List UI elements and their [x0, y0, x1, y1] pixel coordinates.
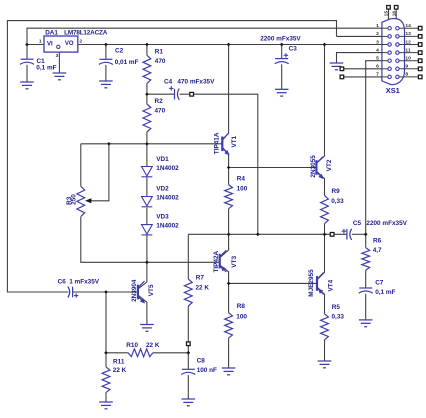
XS1 left wire into row 6: [382, 68, 388, 70]
wire node to C4: [147, 93, 175, 95]
ground R5: [318, 361, 332, 368]
wire VT2 emitter to R9: [317, 172, 325, 196]
wire VT5 collector riser: [139, 262, 147, 288]
capacitor C1: [20, 59, 34, 64]
resistor R9: [321, 196, 329, 224]
transistor VT3 TIP42A: [220, 250, 227, 272]
XS1 right pin 10 terminal: [418, 59, 422, 63]
wire VT3 emitter down: [220, 265, 228, 283]
wire R2 link: [146, 94, 148, 104]
junction R10/R11 node: [104, 351, 108, 355]
svg-text:VT2: VT2: [326, 159, 333, 171]
junction rail VT1 collector: [227, 43, 231, 47]
svg-text:MJE2955: MJE2955: [308, 269, 315, 297]
wire C1 leg: [26, 45, 28, 60]
junction base node R2/VD1: [145, 142, 149, 146]
transistor VT2 2N3055: [316, 157, 323, 179]
XS1 pin 16 wire: [395, 9, 397, 18]
svg-text:VD2: VD2: [156, 185, 169, 192]
wire VD1-VD2: [146, 178, 148, 196]
XS1 right pin 9 wire: [399, 68, 419, 70]
junction R7/R10/C8 node: [187, 351, 191, 355]
wire pin 2 stub: [337, 35, 382, 37]
wire VT1 emitter riser: [223, 148, 229, 168]
junction output R9/VT4: [323, 233, 327, 237]
wire R9 bottom: [324, 224, 326, 235]
svg-text:2N3055: 2N3055: [310, 155, 317, 178]
XS1 right contact row 3: [396, 43, 399, 46]
XS1 right contact row 5: [396, 59, 399, 62]
XS1 left wire into row 7: [382, 76, 388, 78]
wire R7 bottom to square: [187, 306, 189, 342]
transistor VT4 MJE2955: [317, 273, 324, 295]
wire VT3/VT4 base line: [229, 282, 317, 284]
wire C2 to ground: [105, 65, 107, 81]
svg-text:TIP42A: TIP42A: [213, 250, 220, 272]
connector XS1 body: [382, 18, 405, 84]
svg-text:8: 8: [405, 72, 408, 78]
wire VI node to DA1: [27, 44, 44, 46]
XS1 left wire into row 4: [382, 52, 388, 54]
svg-text:3: 3: [376, 39, 379, 45]
wire C6 to VT5 base: [73, 291, 138, 293]
wire square to VT1 collector riser drop: [193, 94, 258, 234]
wire VT1/VT2 base line: [229, 167, 316, 169]
wire R2 bottom: [146, 132, 148, 144]
resistor R11: [102, 367, 110, 393]
svg-text:12: 12: [405, 39, 411, 45]
XS1 left contact row 6: [388, 67, 391, 70]
wire DA1 gnd pin: [58, 52, 60, 73]
ground C2: [99, 81, 113, 88]
wire C7 to ground: [365, 294, 367, 320]
svg-text:C7: C7: [375, 279, 384, 286]
junction rail R1: [145, 43, 149, 47]
diode VD3: [142, 225, 153, 235]
svg-text:R10: R10: [126, 342, 138, 349]
junction VT3 emitter node: [227, 282, 231, 286]
wire R10 right link: [153, 352, 188, 354]
wire R4 bottom: [228, 209, 230, 235]
XS1 pin 6 terminal: [340, 67, 344, 71]
transistor VT1 TIP41A: [222, 133, 229, 155]
svg-text:2: 2: [79, 39, 82, 45]
junction VT5 collector top: [146, 261, 148, 263]
wiper arrow of R3: [85, 198, 91, 203]
diode VD1: [142, 167, 153, 177]
XS1 right pin 13 terminal: [418, 35, 422, 39]
wire C8 top leg: [187, 353, 189, 370]
svg-text:R6: R6: [373, 237, 382, 244]
potentiometer R3: [77, 186, 85, 216]
svg-text:0,33: 0,33: [331, 198, 344, 205]
wire R7 riser from output line: [187, 234, 189, 279]
svg-text:0,1 mF: 0,1 mF: [36, 64, 56, 71]
svg-text:R9: R9: [332, 188, 341, 195]
XS1 left wire into row 1: [382, 27, 388, 29]
resistor R10: [128, 349, 153, 357]
DA1 ground pin circle: [57, 45, 60, 48]
ground C3: [275, 89, 289, 96]
resistor R1: [143, 55, 151, 83]
svg-text:22 K: 22 K: [113, 367, 127, 374]
svg-text:2N3904: 2N3904: [131, 279, 138, 302]
svg-text:VI: VI: [47, 42, 53, 48]
wire VT4 emitter to R5: [318, 288, 325, 314]
terminal square above R7/R10 node: [187, 342, 191, 346]
svg-text:1: 1: [376, 23, 379, 29]
svg-text:11: 11: [405, 47, 410, 53]
svg-text:470: 470: [155, 58, 166, 65]
wire R10 left link: [106, 352, 128, 354]
wire C2 leg: [105, 45, 107, 60]
terminal square on C4 wire: [190, 92, 194, 96]
XS1 right contact row 6: [396, 67, 399, 70]
XS1 pin 16 terminal: [394, 6, 398, 10]
svg-text:R5: R5: [332, 304, 341, 311]
transistor VT5 2N3904: [138, 281, 145, 303]
wire R4 top: [228, 168, 230, 185]
XS1 right pin 8 wire: [399, 76, 419, 78]
XS1 right pin 8 terminal: [418, 75, 422, 79]
junction R1/R2/C4 node: [145, 92, 149, 96]
svg-text:R8: R8: [237, 303, 246, 310]
XS1 right pin 14 terminal: [418, 26, 422, 30]
junction VT1 emitter node: [227, 166, 231, 170]
svg-text:1: 1: [39, 39, 42, 45]
XS1 pin 15 wire: [388, 9, 390, 20]
svg-text:R1: R1: [155, 48, 164, 55]
wire VT1 collector: [223, 45, 229, 140]
XS1 pin 7 terminal: [340, 75, 344, 79]
junction output R4/VT3: [227, 233, 231, 237]
svg-text:250: 250: [71, 194, 78, 205]
capacitor C7: [359, 288, 373, 293]
svg-text:100: 100: [237, 186, 248, 193]
XS1 left wire into row 2: [382, 35, 388, 37]
XS1 right pin 13 wire: [399, 35, 419, 37]
XS1 pin 15 terminal: [387, 6, 391, 10]
svg-text:4,7: 4,7: [373, 247, 382, 254]
XS1 pin 6 stub: [343, 68, 382, 70]
ground R11: [99, 402, 113, 409]
junction rail VT2 collector: [323, 43, 327, 47]
svg-text:1N4002: 1N4002: [156, 165, 179, 172]
wire output riser to pin 5: [366, 61, 382, 235]
junction base node wiper: [107, 142, 111, 146]
svg-text:100 nF: 100 nF: [197, 367, 217, 374]
XS1 right contact row 4: [396, 51, 399, 54]
XS1 right pin 11 wire: [399, 52, 419, 54]
junction VT3 base line diode/VT5 collector: [145, 260, 149, 264]
wire C1 to ground: [26, 65, 28, 82]
wire C8 to ground: [187, 375, 189, 399]
XS1 pin 7 stub: [343, 76, 382, 78]
junction C1/VI node: [25, 43, 29, 47]
junction output C4 drop: [256, 233, 260, 237]
svg-text:C4: C4: [164, 79, 173, 86]
svg-text:5: 5: [376, 56, 379, 62]
capacitor C3: [275, 59, 289, 64]
wire input line C1/VI node to pin 1: [27, 28, 382, 44]
wire VT4 collector riser: [318, 234, 325, 279]
terminal square on output line: [330, 233, 334, 237]
ground DA1: [53, 73, 67, 80]
resistor R2: [143, 104, 151, 132]
junction rail C2: [104, 43, 108, 47]
wire R5 to ground: [324, 340, 326, 361]
junction rail C3: [280, 43, 284, 47]
svg-text:VT3: VT3: [231, 256, 238, 268]
svg-text:3: 3: [56, 53, 59, 59]
svg-text:4: 4: [376, 47, 379, 53]
wire main +rail DA1 VO to pin 3: [78, 44, 382, 46]
svg-text:15: 15: [384, 11, 390, 17]
ground C7: [359, 320, 373, 327]
svg-text:22 K: 22 K: [196, 285, 210, 292]
wire pin4 to ground: [337, 53, 382, 63]
wire VT5 emitter down: [139, 296, 147, 325]
capacitor C4: [175, 89, 180, 100]
svg-text:LM78L12ACZA: LM78L12ACZA: [64, 30, 108, 37]
wire R8 top: [228, 283, 230, 312]
svg-text:1N4002: 1N4002: [156, 222, 179, 229]
wire R10 left node riser: [105, 292, 107, 353]
wire R3 top leg: [80, 144, 82, 187]
XS1 left contact row 3: [388, 43, 391, 46]
junction C6 line R11 riser: [104, 290, 108, 294]
svg-text:2200 mFx35V: 2200 mFx35V: [260, 36, 301, 43]
XS1 right pin 9 terminal: [418, 67, 422, 71]
ground VT5 emitter: [140, 325, 154, 332]
capacitor C8: [181, 369, 195, 374]
XS1 left contact row 2: [388, 35, 391, 38]
XS1 right pin 11 terminal: [418, 51, 422, 55]
wire C3 to ground: [281, 64, 283, 89]
resistor R8: [225, 313, 233, 338]
svg-text:VT1: VT1: [231, 135, 238, 147]
svg-text:R7: R7: [196, 275, 205, 282]
svg-text:14: 14: [405, 23, 411, 29]
wire square to R10 node: [187, 345, 189, 352]
capacitor C5: [347, 229, 352, 240]
svg-text:470: 470: [155, 108, 166, 115]
svg-text:0,33: 0,33: [332, 313, 345, 320]
svg-text:2200 mFx35V: 2200 mFx35V: [366, 220, 407, 227]
XS1 left contact row 4: [388, 51, 391, 54]
XS1 left contact row 7: [388, 75, 391, 78]
svg-text:DA1: DA1: [45, 30, 58, 37]
svg-text:R11: R11: [113, 358, 125, 365]
XS1 right contact row 7: [396, 75, 399, 78]
ground XS1 pin 4: [330, 63, 344, 70]
svg-text:VD1: VD1: [156, 156, 169, 163]
svg-text:C8: C8: [197, 357, 206, 364]
svg-text:1N4002: 1N4002: [156, 194, 179, 201]
capacitor C6: [68, 286, 73, 297]
XS1 right contact row 2: [396, 35, 399, 38]
XS1 left wire into row 3: [382, 44, 388, 46]
svg-text:2: 2: [376, 31, 379, 37]
svg-text:470 mFx35V: 470 mFx35V: [177, 79, 215, 86]
svg-text:R2: R2: [155, 98, 164, 105]
wire R8 to ground: [228, 338, 230, 368]
svg-text:VO: VO: [65, 41, 74, 47]
resistor R7: [184, 279, 192, 306]
svg-text:1 mFx35V: 1 mFx35V: [69, 278, 100, 285]
svg-text:0,1 mF: 0,1 mF: [375, 289, 395, 296]
wire R6 to C7: [365, 270, 367, 288]
diode VD2: [142, 197, 153, 207]
wire output line: [188, 233, 346, 235]
ground C1: [20, 82, 34, 89]
ground R8: [222, 368, 236, 375]
svg-text:VT5: VT5: [148, 284, 155, 296]
wire VD3 to VT3 base line: [146, 235, 148, 262]
XS1 left contact row 5: [388, 59, 391, 62]
junction output C5/riser: [364, 233, 368, 237]
svg-text:13: 13: [405, 31, 411, 37]
svg-text:C5: C5: [353, 220, 362, 227]
svg-text:10: 10: [405, 56, 411, 62]
wire R11 top: [105, 353, 107, 367]
wire VD2-VD3: [146, 208, 148, 224]
svg-text:0,01 mF: 0,01 mF: [115, 59, 139, 66]
XS1 right pin 12 wire: [399, 44, 419, 46]
XS1 right pin 10 wire: [399, 60, 419, 62]
wire C3 top leg: [281, 45, 283, 59]
resistor R4: [225, 185, 233, 209]
XS1 left wire into row 5: [382, 60, 388, 62]
ground C8: [182, 399, 196, 406]
capacitor C2: [99, 59, 113, 64]
wire base node line to VT1: [81, 143, 222, 145]
svg-text:XS1: XS1: [386, 86, 400, 95]
wire C5 right to riser: [352, 233, 366, 235]
svg-text:VD3: VD3: [156, 213, 169, 220]
XS1 right pin 14 wire: [399, 27, 419, 29]
wire R3 bottom to VT3 base line: [81, 217, 219, 263]
svg-text:VT4: VT4: [328, 279, 335, 291]
resistor R5: [321, 314, 329, 340]
svg-text:C3: C3: [289, 46, 298, 53]
resistor R6: [362, 248, 370, 271]
XS1 left contact row 1: [388, 27, 391, 30]
svg-text:C2: C2: [115, 47, 124, 54]
wire R3 wiper: [91, 144, 109, 201]
svg-text:100: 100: [236, 313, 247, 320]
wire R6 top: [365, 234, 367, 247]
svg-text:TIP41A: TIP41A: [213, 132, 220, 154]
svg-text:9: 9: [405, 64, 408, 70]
wire VT2 collector riser: [317, 45, 325, 163]
wire C4 to square: [180, 93, 191, 95]
wire R1 bottom to node: [146, 83, 148, 94]
wire diode chain top: [146, 144, 148, 167]
wire R11 to ground: [105, 393, 107, 402]
svg-text:C6: C6: [58, 278, 67, 285]
wire VT3 collector riser: [220, 234, 228, 257]
regulator DA1 box: [44, 36, 78, 52]
XS1 right pin 12 terminal: [418, 43, 422, 47]
svg-text:22 K: 22 K: [146, 342, 160, 349]
wire R1 top: [146, 45, 148, 56]
XS1 right contact row 1: [396, 27, 399, 30]
wire feedback loop left/top from output to pin 2: [7, 21, 336, 292]
svg-text:16: 16: [391, 11, 397, 17]
svg-text:R4: R4: [237, 175, 246, 182]
